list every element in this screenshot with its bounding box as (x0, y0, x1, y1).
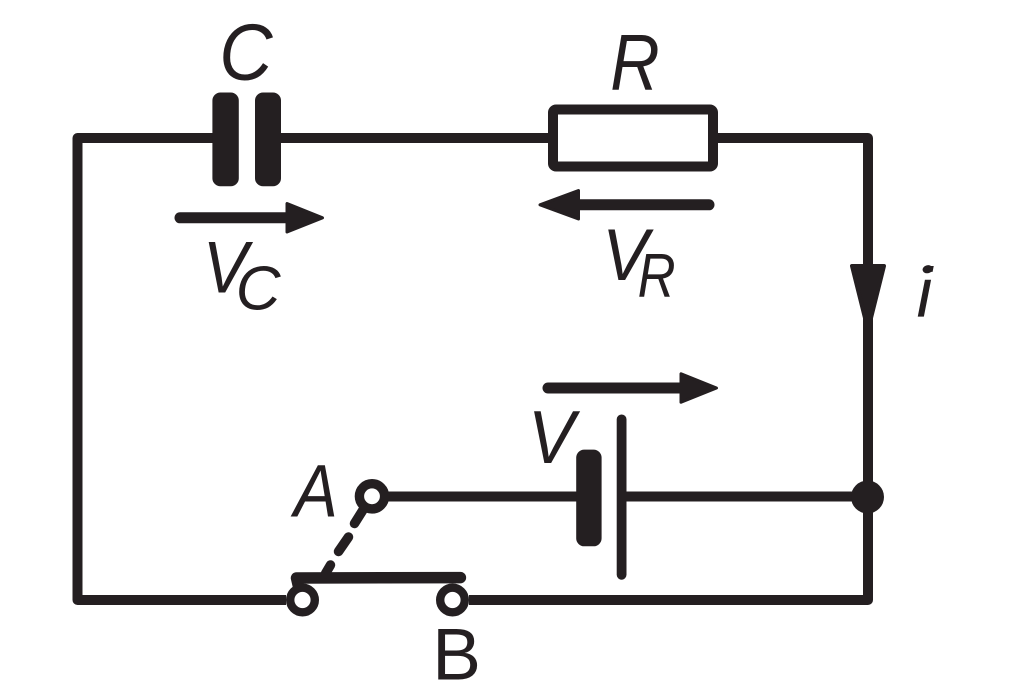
svg-text:C: C (219, 8, 273, 97)
svg-text:A: A (290, 450, 338, 532)
svg-text:B: B (432, 614, 481, 683)
svg-text:V: V (528, 396, 581, 480)
svg-text:C: C (236, 254, 282, 323)
svg-text:i: i (917, 254, 935, 332)
svg-text:R: R (610, 18, 659, 107)
svg-text:R: R (638, 242, 676, 311)
